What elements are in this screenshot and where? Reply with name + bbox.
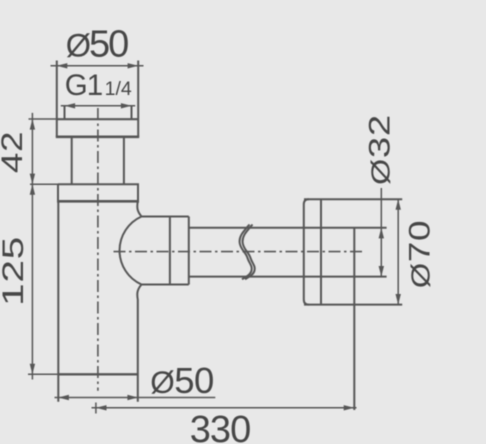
slip nut bottom edge [57,200,139,203]
bottle body left side + Ø50 extension [57,201,59,401]
wall flange right face [320,199,322,304]
pipe end cap + 330 extension line [353,228,355,410]
outlet dome top line [142,216,189,218]
flange top edge + extension to 42 dim [29,118,139,120]
dimension line 42/125 shared vertical [30,113,35,380]
svg-text:42: 42 [0,131,29,173]
horizontal centerline of pipe [114,251,364,253]
bottle body right side lower + Ø50 extension [137,285,141,402]
pipe break symbol [240,225,252,280]
svg-text:330: 330 [190,409,250,444]
pipe nut right face [188,217,190,285]
slip nut left side [57,184,59,201]
dimension line Ø50 top [51,63,144,68]
svg-text:Ø50: Ø50 [150,360,214,401]
extension line / flange left side [56,61,58,137]
dimension line 330 [92,403,357,414]
svg-text:125: 125 [0,236,30,306]
bottle bottom extension line to 125 dim [28,373,58,375]
wall flange bottom edge + Ø70 extension [304,304,402,306]
neck left side [71,137,73,184]
outlet dome bottom line [142,284,189,286]
bottle body right side upper stub [137,201,141,216]
wall flange top edge + Ø70 extension [304,198,402,200]
pipe nut left face [169,217,171,285]
threaded tube left side [64,106,66,119]
svg-text:1/4: 1/4 [105,78,132,100]
dimension line Ø50 bottom [55,395,216,400]
threaded tube right side [131,106,133,119]
neck right side [123,137,125,184]
pipe bottom wall + Ø32 extension [189,276,387,278]
dimension line Ø32 [379,188,384,277]
bottle bottom edge [58,373,138,375]
slip nut right side [137,184,139,201]
dimension line Ø70 [396,199,401,304]
flange bottom edge [56,136,139,139]
extension line / flange right side [137,61,139,137]
pipe top wall + Ø32 extension [189,227,387,229]
outlet dome arc [120,217,142,285]
slip nut top edge + extension to dims [30,183,139,185]
vertical centerline of bottle [97,108,99,391]
svg-text:Ø70: Ø70 [404,220,437,288]
svg-text:Ø32: Ø32 [364,114,397,185]
svg-text:G1: G1 [65,69,102,102]
wall flange left face (rounded) [304,199,309,304]
svg-text:Ø50: Ø50 [66,24,128,66]
dimension line G1 1/4 / thread top [61,103,135,108]
